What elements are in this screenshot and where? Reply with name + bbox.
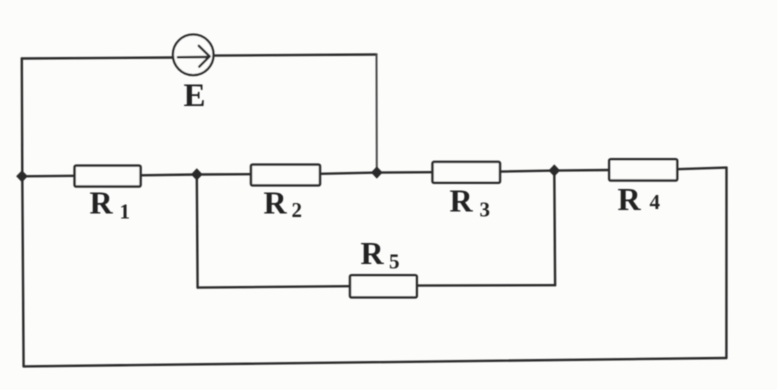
wire top-left (source E to left rail) xyxy=(22,58,173,59)
source E (circle with arrow) xyxy=(173,35,214,76)
wire right rail xyxy=(725,168,727,358)
wire drop from top into node C xyxy=(376,55,378,173)
svg-text:3: 3 xyxy=(480,198,491,222)
resistor R1 xyxy=(75,166,141,187)
svg-text:R: R xyxy=(90,185,114,221)
wire node C to R3 xyxy=(377,171,433,174)
wire left rail upper (top corner to node A) xyxy=(21,59,24,177)
wire R2 to node C xyxy=(320,173,377,174)
svg-text:R: R xyxy=(450,183,474,219)
wire top-right (source E to node C drop) xyxy=(214,55,377,56)
resistor R2 xyxy=(251,165,320,186)
svg-text:2: 2 xyxy=(292,198,303,222)
wire R5 branch up to node D xyxy=(553,171,556,286)
svg-text:5: 5 xyxy=(389,250,400,274)
svg-text:1: 1 xyxy=(120,200,131,224)
svg-text:R: R xyxy=(264,185,288,221)
svg-text:4: 4 xyxy=(650,190,661,214)
wire R3 to node D xyxy=(500,171,554,172)
resistor R4 xyxy=(609,159,677,180)
node B (R1/R2/R5 junction) xyxy=(191,168,203,180)
node C (R2/R3/E junction) xyxy=(371,166,383,178)
svg-text:E: E xyxy=(184,78,206,114)
wire left rail lower (node A to bottom-left corner) xyxy=(22,176,23,366)
node A (left rail junction) xyxy=(16,170,28,182)
wire node D to R4 xyxy=(554,169,609,172)
wire node A to R1 xyxy=(22,175,74,178)
node D (R3/R4/R5 junction) xyxy=(549,164,561,176)
wire R4 to right corner xyxy=(677,168,727,170)
wire node B down to R5 branch xyxy=(196,175,199,288)
resistor R3 xyxy=(433,162,501,183)
wire R5 branch right horizontal xyxy=(417,284,555,287)
svg-text:R: R xyxy=(361,235,385,271)
wire R5 branch left horizontal xyxy=(198,286,350,287)
wire bottom rail xyxy=(24,358,727,366)
wire node B to R2 xyxy=(197,173,251,176)
resistor R5 xyxy=(350,275,417,297)
wire R1 to node B xyxy=(141,173,197,176)
svg-text:R: R xyxy=(618,181,642,217)
